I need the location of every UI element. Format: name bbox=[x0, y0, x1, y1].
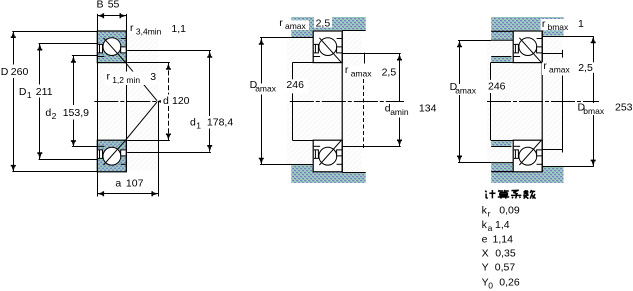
heading 计算系数 (drawn strokes) bbox=[485, 190, 535, 199]
dimension D: line bbox=[13, 31, 15, 64]
dimension Damax: line bbox=[261, 38, 263, 84]
dimension Damax: extension stubs bbox=[260, 37, 291, 39]
svg-text:260: 260 bbox=[11, 66, 29, 78]
bearing section bottom: blue body bbox=[97, 140, 126, 172]
svg-text:134: 134 bbox=[419, 102, 437, 114]
dimension d2: line bbox=[73, 56, 75, 105]
dimension d: dashed line bbox=[168, 63, 170, 95]
char 系 bbox=[511, 190, 521, 198]
svg-text:178,4: 178,4 bbox=[207, 117, 233, 129]
svg-text:d: d bbox=[190, 117, 196, 129]
shaft end face bbox=[292, 62, 294, 80]
svg-text:246: 246 bbox=[488, 81, 506, 93]
shaft surface lines bbox=[293, 62, 314, 64]
svg-text:e: e bbox=[482, 234, 488, 246]
apex arrow bbox=[157, 100, 161, 103]
svg-text:Y: Y bbox=[482, 262, 489, 274]
dimension d1: line bbox=[209, 51, 211, 116]
shaft shoulder right bottom line bbox=[542, 149, 562, 151]
dimension Dbmax: line bbox=[593, 36, 595, 103]
svg-text:0: 0 bbox=[488, 281, 493, 291]
dimension damin: extension lines bbox=[342, 53, 401, 55]
svg-text:r: r bbox=[488, 209, 491, 219]
char 计 bbox=[485, 190, 495, 198]
svg-text:1,4: 1,4 bbox=[495, 219, 510, 231]
bearing right face line bbox=[541, 31, 543, 172]
svg-text:r: r bbox=[130, 22, 134, 34]
char 算 bbox=[498, 190, 509, 199]
svg-text:1: 1 bbox=[27, 90, 32, 100]
dimension D1: extension lines bbox=[39, 43, 97, 45]
svg-text:0,57: 0,57 bbox=[495, 262, 516, 274]
label ramax 2,5 bbox=[542, 62, 574, 75]
svg-text:0,26: 0,26 bbox=[499, 276, 520, 288]
shaft ghost hatch bbox=[98, 33, 158, 170]
bearing right face line bbox=[341, 31, 343, 172]
shaft end face bbox=[490, 62, 492, 80]
svg-text:1,1: 1,1 bbox=[171, 23, 186, 35]
svg-text:amax: amax bbox=[351, 69, 373, 79]
r fillet dashed leader bbox=[364, 53, 366, 64]
svg-text:2: 2 bbox=[52, 111, 57, 121]
svg-text:r: r bbox=[542, 18, 546, 30]
svg-text:3: 3 bbox=[150, 71, 156, 83]
char 数 bbox=[523, 190, 535, 199]
svg-text:r: r bbox=[107, 71, 111, 83]
dimension d1: extension lines bbox=[127, 50, 211, 52]
housing bottom bbox=[491, 163, 563, 183]
svg-text:2,5: 2,5 bbox=[578, 62, 593, 74]
svg-text:2,5: 2,5 bbox=[316, 17, 331, 29]
svg-text:211: 211 bbox=[36, 86, 53, 98]
label d 120 bbox=[162, 95, 194, 106]
svg-text:3,4min: 3,4min bbox=[136, 27, 162, 37]
dimension B: line bbox=[97, 15, 126, 17]
dimension d: extension lines bbox=[127, 62, 170, 64]
svg-text:d: d bbox=[163, 95, 169, 107]
svg-text:amax: amax bbox=[255, 83, 277, 93]
svg-text:bmax: bmax bbox=[583, 106, 605, 116]
label rbmax 1 bbox=[541, 19, 572, 30]
label r1,2min 3 bbox=[105, 72, 157, 86]
r fillet dashed leader bbox=[562, 76, 564, 153]
housing top (blue band + left shoulder) bbox=[291, 17, 365, 37]
dimension Dbmax: extension lines bbox=[542, 36, 594, 38]
dimension D1: line bbox=[39, 44, 41, 85]
svg-text:D: D bbox=[19, 86, 27, 98]
centerline bbox=[94, 101, 156, 103]
svg-text:D: D bbox=[1, 66, 9, 78]
centerline bbox=[487, 101, 599, 103]
hatch region bbox=[487, 40, 562, 163]
dimension Damax: line bbox=[459, 41, 461, 85]
svg-text:a: a bbox=[488, 223, 493, 233]
hatch region bbox=[287, 39, 361, 165]
svg-text:r: r bbox=[279, 17, 283, 29]
svg-text:1: 1 bbox=[196, 121, 201, 131]
svg-text:amax: amax bbox=[285, 21, 307, 31]
svg-text:246: 246 bbox=[286, 79, 304, 91]
svg-text:55: 55 bbox=[108, 0, 120, 11]
left face line bbox=[97, 14, 99, 197]
centerline bbox=[290, 101, 404, 103]
svg-text:1,2 min: 1,2 min bbox=[112, 75, 140, 85]
label damin 134 bbox=[384, 103, 418, 118]
bearing section top (outline) bbox=[313, 31, 342, 63]
dimension damin: line bbox=[399, 54, 401, 102]
svg-text:2,5: 2,5 bbox=[382, 67, 397, 79]
shaft surface lines bbox=[491, 62, 514, 64]
label ramax 2,5 right bbox=[344, 65, 376, 78]
svg-text:153,9: 153,9 bbox=[63, 107, 89, 119]
svg-text:amax: amax bbox=[549, 65, 571, 75]
svg-text:253: 253 bbox=[615, 102, 633, 114]
svg-text:1,14: 1,14 bbox=[493, 234, 514, 246]
svg-text:1: 1 bbox=[578, 18, 584, 30]
bearing section top (outline) bbox=[513, 31, 542, 63]
dimension D: extension lines bbox=[12, 31, 97, 33]
dimension d2: extension lines bbox=[72, 55, 97, 57]
dimension B arrows bbox=[97, 13, 104, 18]
bearing section bottom (outline) bbox=[313, 140, 342, 172]
dimension a: line bbox=[97, 193, 158, 195]
housing top (blue band + shoulders both sides) bbox=[491, 17, 563, 40]
contact line bottom extension bbox=[125, 102, 157, 141]
svg-text:107: 107 bbox=[126, 177, 144, 189]
svg-text:r: r bbox=[345, 64, 349, 76]
shaft shoulder right top line bbox=[542, 53, 562, 55]
label ramax 2,5 top bbox=[284, 20, 309, 30]
right face line bbox=[126, 14, 128, 172]
svg-text:d: d bbox=[45, 107, 51, 119]
svg-text:r: r bbox=[543, 60, 547, 72]
bearing section bottom (outline) bbox=[513, 140, 542, 172]
housing top border lines bbox=[342, 30, 366, 32]
svg-text:bmax: bmax bbox=[548, 22, 570, 32]
svg-text:amin: amin bbox=[390, 107, 409, 117]
bearing section top details bbox=[97, 31, 126, 63]
svg-text:X: X bbox=[482, 248, 489, 260]
svg-text:a: a bbox=[115, 177, 121, 189]
svg-text:B: B bbox=[97, 0, 104, 11]
dimension a: extension line right bbox=[158, 101, 160, 196]
svg-text:0,35: 0,35 bbox=[495, 248, 516, 260]
dimension Damax: extension stubs bbox=[458, 40, 491, 42]
shaft spacer left (blue) bbox=[491, 57, 511, 62]
svg-text:amax: amax bbox=[455, 85, 477, 95]
bearing section top: outer ring / inner ring blue body bbox=[97, 31, 126, 63]
svg-text:0,09: 0,09 bbox=[499, 205, 520, 217]
contact line top extension bbox=[125, 62, 157, 100]
svg-text:120: 120 bbox=[172, 95, 190, 107]
housing bottom (blue band + left shoulder) bbox=[291, 165, 365, 183]
